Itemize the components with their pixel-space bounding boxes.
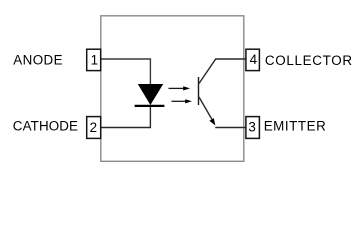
wire emitter to pin3	[215, 127, 245, 129]
light arrow 1	[169, 86, 191, 90]
svg-text:1: 1	[91, 52, 98, 67]
svg-text:CATHODE: CATHODE	[13, 118, 78, 133]
pin 3 box	[246, 117, 260, 139]
pin 1 box	[87, 49, 101, 70]
transistor Q1 emitter arrowhead	[209, 118, 215, 125]
svg-text:ANODE: ANODE	[13, 53, 63, 68]
svg-text:4: 4	[250, 52, 258, 67]
pin 2 box	[87, 117, 101, 139]
light arrow 2	[172, 99, 193, 103]
transistor Q1 emitter diagonal	[199, 97, 212, 120]
package outline	[101, 16, 244, 162]
pin 4 box	[246, 49, 260, 70]
wire cathode (LED to pin2)	[101, 106, 150, 128]
svg-text:EMITTER: EMITTER	[264, 118, 327, 133]
wire anode (pin1 to LED)	[101, 59, 150, 85]
LED D1 triangle	[138, 84, 163, 105]
transistor Q1 base bar	[198, 77, 200, 105]
svg-text:3: 3	[248, 120, 255, 135]
svg-text:2: 2	[90, 120, 97, 135]
svg-text:COLLECTOR: COLLECTOR	[265, 53, 353, 68]
transistor Q1 collector + wire to pin4	[199, 59, 246, 84]
LED D1 cathode bar	[135, 105, 165, 107]
